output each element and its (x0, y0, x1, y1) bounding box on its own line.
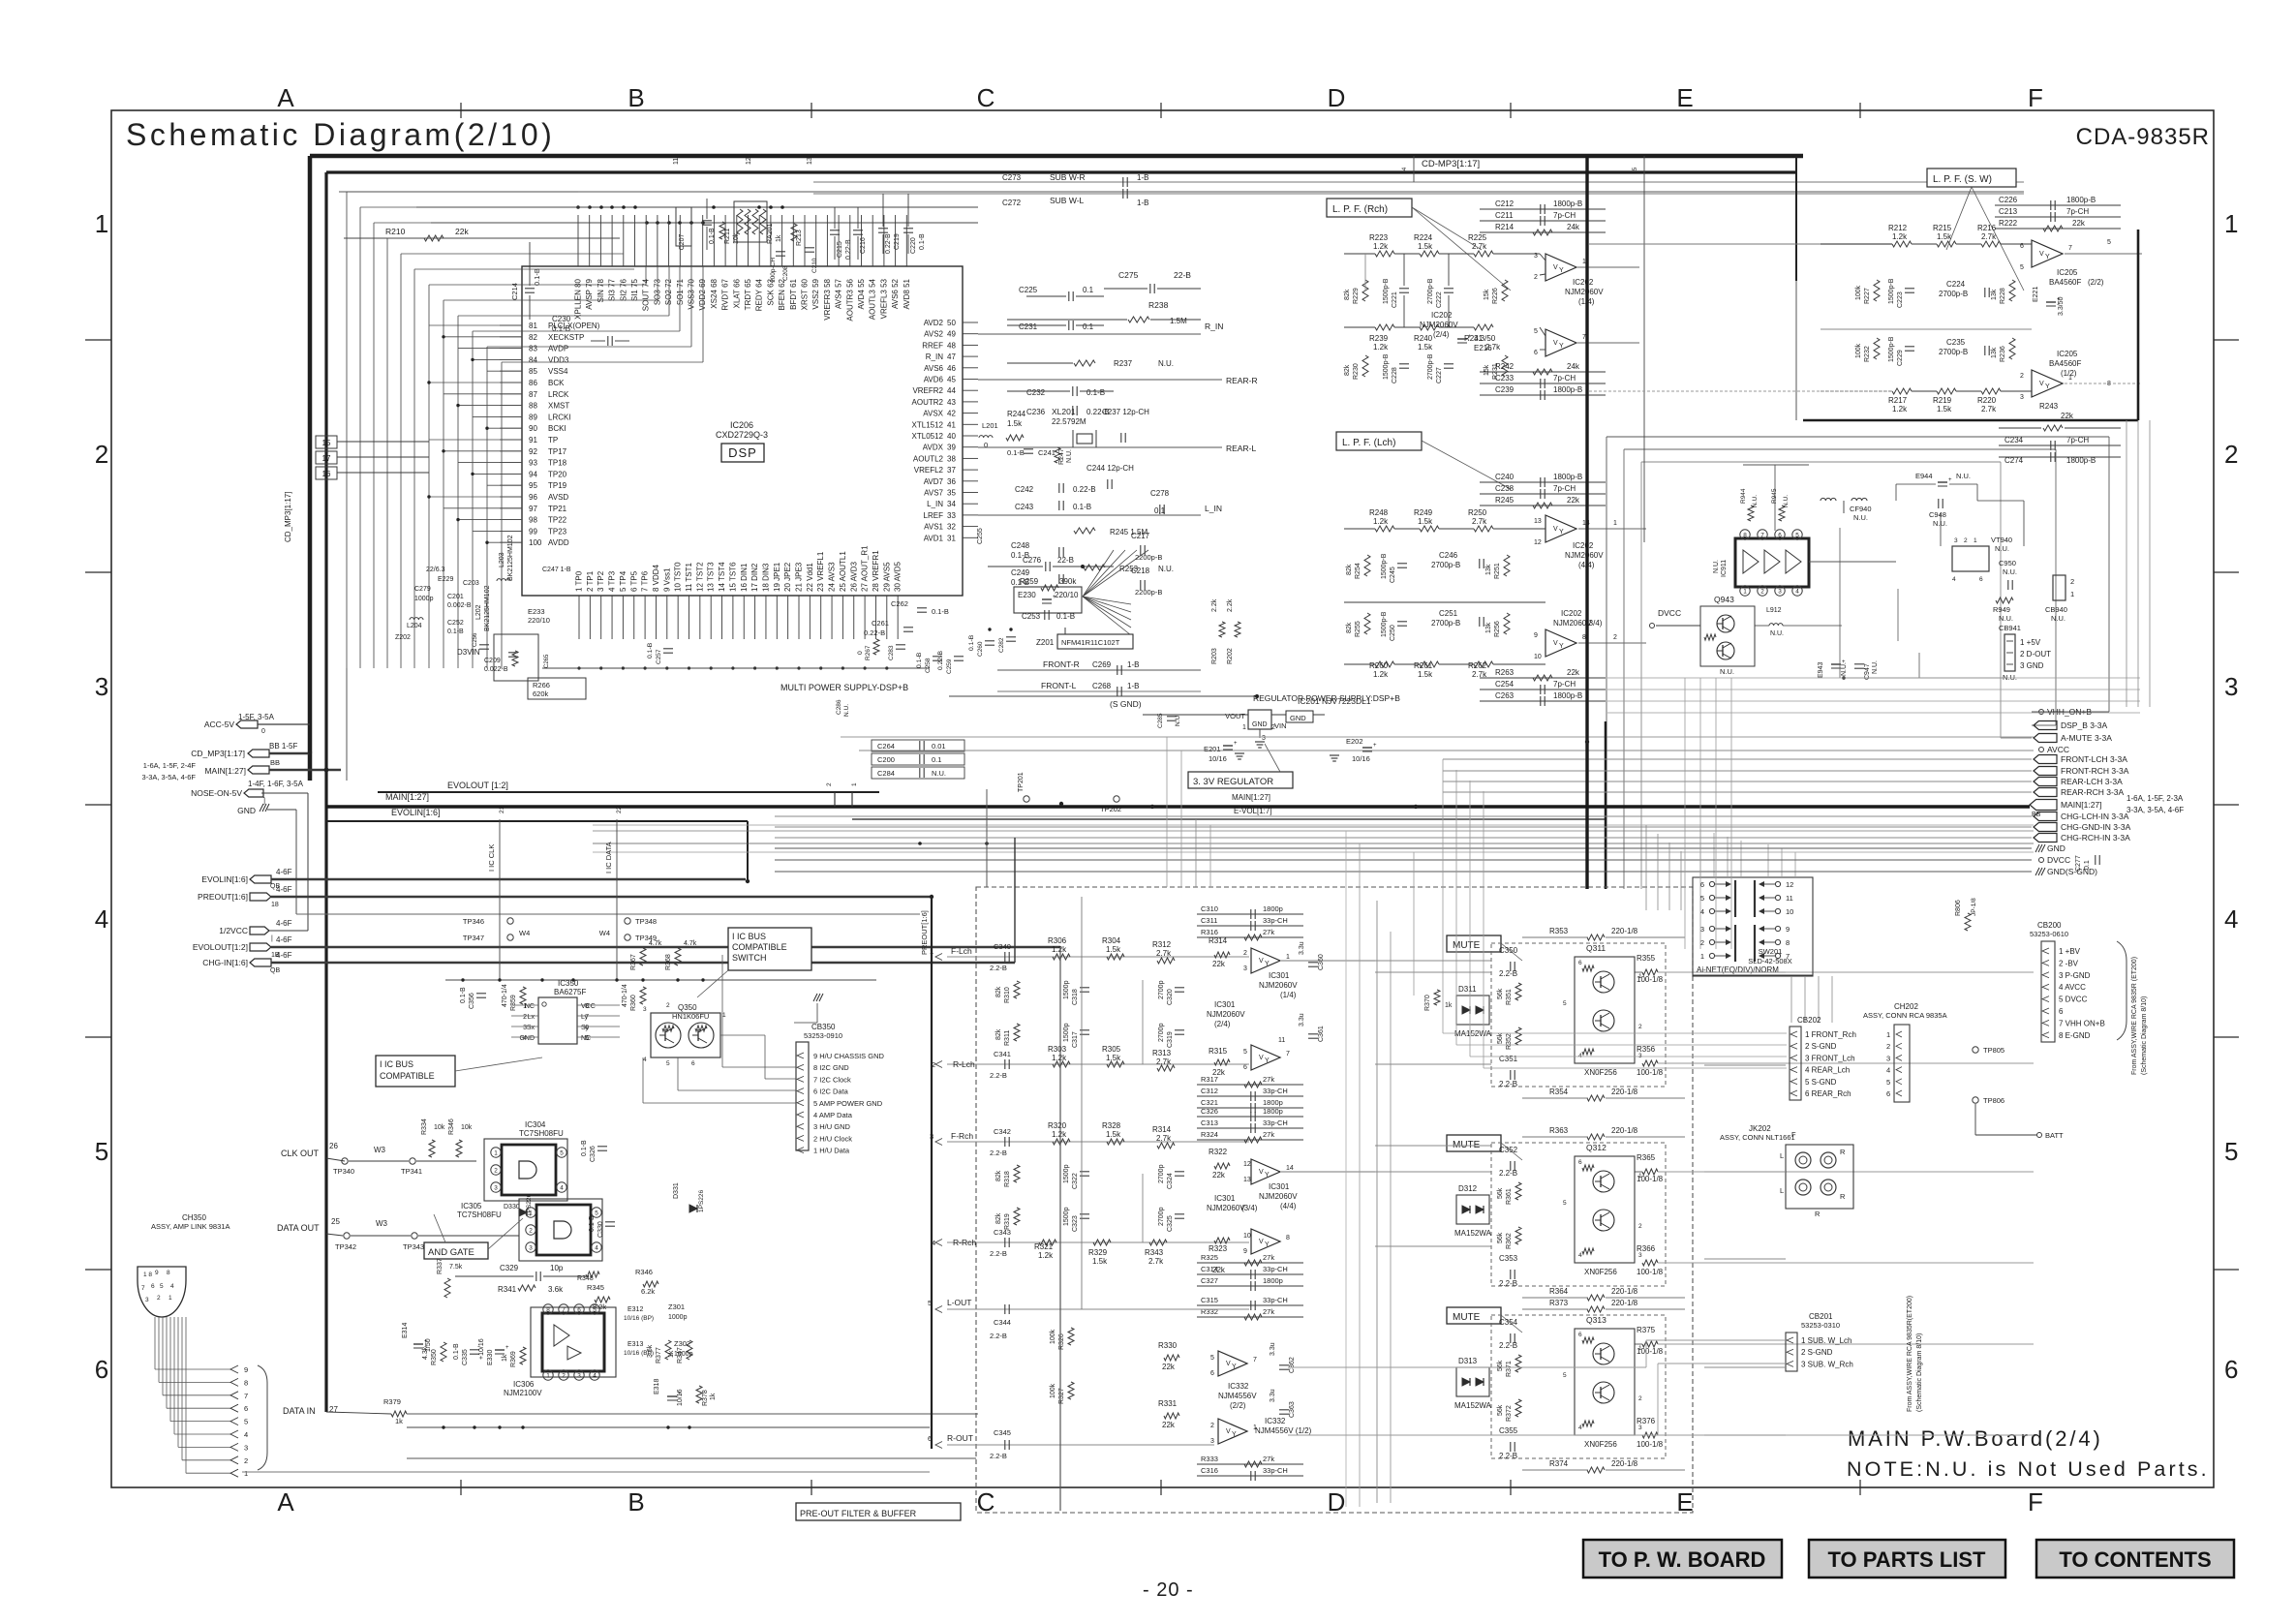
svg-text:22k: 22k (1162, 1421, 1176, 1429)
svg-text:0.022-B: 0.022-B (484, 666, 508, 673)
svg-text:V: V (1226, 1428, 1231, 1435)
wire right edge drops (2126, 420, 2127, 707)
svg-text:C217: C217 (1131, 532, 1150, 540)
svg-text:14 TST4: 14 TST4 (718, 562, 726, 592)
svg-text:C223: C223 (1897, 291, 1904, 308)
svg-text:C344: C344 (994, 1318, 1011, 1327)
junction dots bottom pins (577, 666, 580, 669)
capacitor 0.1-B above DSP (702, 220, 712, 222)
svg-text:17: 17 (322, 454, 331, 463)
svg-text:2700p-B: 2700p-B (1939, 348, 1968, 356)
svg-text:5: 5 (2107, 239, 2111, 246)
op-amp IC205 1/2 (2032, 370, 2063, 397)
svg-text:IC332: IC332 (1265, 1417, 1286, 1425)
svg-text:MAIN[1:27]: MAIN[1:27] (385, 792, 429, 802)
svg-text:XRST 60: XRST 60 (801, 278, 810, 310)
svg-text:0.22-B: 0.22-B (885, 233, 892, 254)
capacitor C948 N.U. (1938, 499, 1940, 508)
connector FRONT-LCH right (2034, 755, 2057, 764)
ic IC306 NJM2100V (531, 1307, 616, 1377)
label REAR-R wire (978, 379, 1222, 381)
svg-text:DATA IN: DATA IN (283, 1406, 316, 1416)
wire horizontal above DSP 2 (431, 222, 978, 224)
svg-text:26 AVD3: 26 AVD3 (849, 561, 858, 592)
capacitor C323 1500p (1080, 1213, 1089, 1215)
svg-text:13: 13 (807, 157, 813, 165)
svg-text:96: 96 (529, 493, 537, 502)
svg-text:1.5k: 1.5k (1106, 1054, 1121, 1062)
svg-text:+: + (1373, 743, 1377, 749)
svg-text:E944: E944 (1915, 472, 1933, 480)
svg-text:C245: C245 (1390, 567, 1396, 583)
svg-text:22k: 22k (455, 227, 469, 236)
svg-text:1800p-B: 1800p-B (1553, 199, 1582, 208)
svg-text:R266: R266 (533, 681, 550, 689)
svg-text:EVOLIN[1:6]: EVOLIN[1:6] (201, 874, 248, 884)
op-amp U IC206 DSP block outline (522, 266, 963, 596)
svg-text:10k: 10k (434, 1124, 445, 1131)
svg-text:C203: C203 (463, 580, 479, 587)
svg-text:4: 4 (170, 1283, 174, 1290)
svg-text:3: 3 (529, 1245, 533, 1252)
svg-text:45: 45 (947, 376, 956, 384)
svg-text:AVS4 57: AVS4 57 (835, 278, 843, 309)
svg-text:IC306: IC306 (513, 1380, 535, 1389)
svg-text:N.U.: N.U. (843, 704, 850, 717)
op-amp IC202 A (1545, 254, 1576, 281)
svg-text:E312: E312 (627, 1306, 643, 1313)
svg-text:Y: Y (1265, 1172, 1270, 1179)
resistor R232 100k (1874, 338, 1880, 359)
svg-text:99: 99 (529, 527, 537, 536)
svg-text:AVS7: AVS7 (924, 489, 943, 498)
resistor R377 3.6k (665, 1340, 671, 1360)
svg-text:3.3/50: 3.3/50 (1474, 334, 1496, 343)
svg-text:0.1-B: 0.1-B (647, 642, 654, 659)
svg-text:D330: D330 (504, 1204, 520, 1210)
svg-text:7 TP6: 7 TP6 (641, 570, 650, 592)
svg-text:VREFL2: VREFL2 (914, 466, 944, 475)
label S GND (949, 695, 1257, 697)
svg-text:|: | (271, 935, 273, 942)
svg-text:3.3/50: 3.3/50 (2058, 296, 2065, 316)
svg-text:9: 9 (1534, 632, 1538, 639)
svg-text:D313: D313 (1458, 1357, 1478, 1365)
svg-text:RREF: RREF (922, 341, 943, 350)
svg-text:C224: C224 (1946, 280, 1966, 289)
svg-text:VREFR3 58: VREFR3 58 (823, 278, 832, 320)
svg-text:25 AOUTL1: 25 AOUTL1 (839, 551, 847, 592)
output wires (1576, 266, 1639, 268)
svg-text:0.1-B: 0.1-B (581, 1140, 588, 1156)
svg-text:BFDT 61: BFDT 61 (789, 278, 798, 309)
svg-text:R372: R372 (1506, 1405, 1513, 1422)
svg-text:0.1-B: 0.1-B (447, 628, 464, 635)
svg-text:(3/4): (3/4) (1241, 1204, 1258, 1212)
label box MUTE 2 (1447, 1135, 1501, 1151)
svg-text:56k: 56k (1497, 1360, 1504, 1371)
svg-text:C319: C319 (1167, 1031, 1174, 1048)
svg-text:2.2-B: 2.2-B (1499, 1341, 1517, 1350)
svg-text:1.2k: 1.2k (1373, 517, 1389, 526)
svg-text:N.U.: N.U. (1158, 565, 1174, 573)
svg-text:97: 97 (529, 505, 537, 513)
svg-text:1.5M: 1.5M (1170, 317, 1187, 325)
transistor VT940 N.U. box (1952, 546, 1989, 571)
svg-text:R377: R377 (656, 1347, 662, 1364)
svg-text:XLAT 66: XLAT 66 (732, 278, 741, 308)
wire EVOLOUT risers (834, 792, 836, 807)
wire vertical to preout (986, 789, 988, 887)
svg-text:ASSY, AMP LINK 9831A: ASSY, AMP LINK 9831A (151, 1222, 229, 1231)
svg-text:8: 8 (1286, 1235, 1290, 1241)
svg-text:1.2k: 1.2k (1052, 1054, 1067, 1062)
svg-text:4: 4 (1578, 1252, 1582, 1259)
label R_IN wire (978, 333, 1201, 335)
svg-text:R346: R346 (635, 1268, 653, 1276)
svg-text:VIN: VIN (1274, 721, 1287, 730)
svg-text:7p-CH: 7p-CH (1553, 374, 1576, 383)
svg-text:C257: C257 (656, 649, 662, 664)
svg-text:N.U.: N.U. (1841, 662, 1848, 676)
switch SW201 pole circles left (1709, 881, 1714, 886)
svg-text:1800p: 1800p (1263, 1107, 1283, 1116)
svg-text:R363: R363 (1549, 1126, 1569, 1135)
svg-text:C238: C238 (1495, 484, 1515, 493)
svg-text:BK2125HM102: BK2125HM102 (507, 535, 514, 581)
wire evol riser (1059, 947, 1061, 1511)
svg-text:3: 3 (523, 1025, 527, 1031)
svg-text:1: 1 (523, 1003, 527, 1010)
vertical wire IIC CLK (499, 819, 501, 980)
svg-text:R315: R315 (1209, 1047, 1228, 1056)
wire preout row F-Rch (947, 1141, 1249, 1143)
svg-text:V: V (2039, 381, 2044, 387)
svg-text:2700p-B: 2700p-B (1427, 278, 1434, 304)
capacitor C250 1500p-B (1397, 621, 1407, 623)
svg-text:C248: C248 (1011, 541, 1030, 550)
svg-text:C340: C340 (994, 942, 1011, 951)
svg-text:3 H/U GND: 3 H/U GND (813, 1122, 851, 1131)
svg-text:AVS1: AVS1 (924, 523, 943, 532)
svg-text:R255: R255 (1355, 621, 1362, 637)
wire stubs from left pins (429, 324, 522, 326)
wire lpf sw feed top (1589, 243, 1892, 245)
svg-text:DVCC: DVCC (2047, 855, 2070, 865)
resistor R362 56k b (1515, 1227, 1521, 1244)
wires feedback (1480, 208, 1606, 210)
svg-text:SUB W-R: SUB W-R (1050, 172, 1086, 182)
svg-text:56k: 56k (1497, 1404, 1504, 1416)
svg-text:N.U.: N.U. (932, 769, 946, 778)
svg-text:24k: 24k (1567, 362, 1580, 371)
svg-text:R328: R328 (1102, 1121, 1121, 1130)
svg-text:E: E (1676, 83, 1693, 112)
wire mute outputs right (1704, 971, 1786, 973)
svg-text:C350: C350 (1499, 946, 1518, 955)
wires to right arrows (1443, 758, 2032, 760)
svg-text:R254: R254 (1355, 563, 1362, 579)
svg-text:R: R (1815, 1210, 1821, 1218)
svg-text:1: 1 (1613, 520, 1617, 527)
svg-text:5: 5 (160, 1283, 164, 1290)
grid row ticks left (85, 339, 111, 341)
svg-text:BATT: BATT (2045, 1131, 2064, 1140)
svg-text:V: V (1226, 1361, 1231, 1367)
svg-text:R256: R256 (1494, 621, 1501, 637)
svg-text:1k: 1k (502, 1354, 508, 1362)
svg-text:38: 38 (947, 454, 956, 463)
output wire F-Lch (1280, 960, 1375, 962)
svg-text:FRONT-RCH 3-3A: FRONT-RCH 3-3A (2061, 766, 2129, 776)
capacitor C257 0.1-B (663, 648, 673, 650)
wire preout to mute wires (1375, 960, 1491, 962)
svg-text:TRDT 65: TRDT 65 (744, 278, 752, 310)
capacitor C317 1500p (1080, 1029, 1089, 1031)
svg-text:C330: C330 (597, 1221, 604, 1238)
connector A-MUTE right (2034, 734, 2057, 743)
svg-text:C283: C283 (888, 645, 895, 660)
svg-text:5: 5 (928, 1299, 932, 1307)
svg-text:REAR-R: REAR-R (1226, 376, 1258, 385)
svg-text:87: 87 (529, 390, 537, 399)
svg-text:R220: R220 (1977, 396, 1997, 405)
svg-text:R224: R224 (1414, 233, 1433, 242)
svg-text:0.1-B: 0.1-B (453, 1343, 460, 1360)
svg-text:N.U.: N.U. (1175, 714, 1181, 726)
svg-text:CD-MP3[1:17]: CD-MP3[1:17] (1422, 159, 1480, 169)
svg-text:CD_MP3[1:17]: CD_MP3[1:17] (284, 492, 292, 542)
svg-text:A: A (277, 1487, 294, 1517)
svg-text:C353: C353 (1499, 1254, 1518, 1263)
svg-text:4: 4 (244, 1430, 248, 1439)
svg-text:10/16: 10/16 (677, 1389, 684, 1406)
svg-text:MA152WA: MA152WA (1454, 1029, 1492, 1038)
svg-text:PREOUT[1:6]: PREOUT[1:6] (920, 910, 929, 955)
svg-text:MAIN P.W.Board(2/4): MAIN P.W.Board(2/4) (1848, 1426, 2103, 1451)
svg-text:TP806: TP806 (1983, 1096, 2004, 1105)
svg-text:C218: C218 (1131, 567, 1150, 575)
wires feedback bottom (1480, 371, 1606, 373)
svg-text:R251: R251 (1494, 563, 1501, 579)
svg-text:IC301: IC301 (1269, 971, 1290, 980)
svg-text:C269: C269 (1092, 660, 1112, 669)
resistor R256 13k (1504, 613, 1510, 634)
svg-text:TP22: TP22 (548, 516, 567, 525)
wire sw right bus (2137, 230, 2140, 420)
svg-text:27k: 27k (1263, 1075, 1274, 1084)
svg-text:C947: C947 (1864, 663, 1871, 680)
wire IC911 top loop (1743, 464, 1809, 466)
svg-text:TO CONTENTS: TO CONTENTS (2059, 1547, 2211, 1572)
svg-text:IC202: IC202 (1561, 609, 1582, 618)
svg-text:1.5k: 1.5k (1937, 405, 1952, 414)
wire gray horizontals lower mid (1607, 677, 2140, 679)
svg-text:R231: R231 (1492, 363, 1499, 380)
svg-text:IC301: IC301 (1214, 1000, 1236, 1009)
svg-text:4: 4 (560, 1185, 564, 1192)
svg-text:85: 85 (529, 367, 537, 376)
junction dots misc (746, 879, 750, 883)
svg-text:7: 7 (141, 1285, 145, 1292)
svg-text:C: C (977, 83, 995, 112)
svg-text:6: 6 (1534, 350, 1538, 356)
svg-text:C275: C275 (1118, 270, 1139, 280)
testpoint TP349 (625, 935, 630, 940)
svg-text:C201: C201 (447, 594, 464, 600)
svg-text:C285: C285 (1157, 713, 1164, 728)
dashed box MUTE 3 (1491, 1315, 1666, 1458)
svg-text:6: 6 (1578, 1159, 1582, 1166)
svg-text:AVD8 51: AVD8 51 (903, 278, 911, 309)
svg-text:E202: E202 (1346, 737, 1363, 746)
svg-text:82k: 82k (1346, 622, 1353, 633)
svg-text:2.2-B: 2.2-B (1499, 1452, 1517, 1460)
wire bundle corners down to connectors (1442, 759, 1444, 1033)
svg-text:Z302: Z302 (674, 1339, 690, 1348)
wire thick CD-MP3 bus top (310, 154, 1803, 159)
svg-text:+: + (1234, 741, 1238, 747)
svg-text:- 20 -: - 20 - (1143, 1579, 1194, 1601)
svg-text:3.3u: 3.3u (1270, 1389, 1276, 1402)
svg-text:82k: 82k (1346, 564, 1353, 575)
svg-text:V: V (1259, 1169, 1264, 1176)
svg-text:TP340: TP340 (333, 1167, 354, 1176)
svg-text:SI1 75: SI1 75 (630, 278, 639, 301)
svg-text:3-3A, 3-5A, 4-6F: 3-3A, 3-5A, 4-6F (2127, 806, 2184, 814)
svg-text:C259: C259 (946, 659, 953, 674)
svg-text:C310: C310 (1201, 904, 1218, 913)
svg-text:3 SUB. W_Rch: 3 SUB. W_Rch (1801, 1360, 1853, 1368)
svg-text:1800p-B: 1800p-B (2066, 456, 2096, 465)
svg-text:1-6A, 1-5F, 2-3A: 1-6A, 1-5F, 2-3A (2127, 794, 2184, 803)
svg-text:16 DIN1: 16 DIN1 (740, 563, 749, 592)
svg-text:L. P. F. (Rch): L. P. F. (Rch) (1332, 204, 1388, 215)
junction dots above DSP (576, 205, 580, 209)
svg-text:1: 1 (722, 1012, 726, 1019)
svg-text:5: 5 (560, 1150, 564, 1157)
svg-text:AVSX: AVSX (923, 410, 943, 418)
svg-text:TC7SH08FU: TC7SH08FU (457, 1210, 502, 1219)
svg-text:C363: C363 (1289, 1401, 1296, 1418)
svg-text:1 8: 1 8 (143, 1272, 152, 1278)
svg-text:AVD6: AVD6 (924, 376, 944, 384)
wire fan from E230 up (1083, 550, 1114, 597)
testpoint TP806 (1973, 1097, 1978, 1103)
svg-text:R367: R367 (630, 954, 637, 970)
svg-text:1.2k: 1.2k (1892, 232, 1908, 241)
svg-text:C335: C335 (462, 1349, 469, 1365)
wires iic to CB350 (720, 1034, 765, 1036)
svg-text:VSS2 59: VSS2 59 (811, 278, 820, 309)
svg-text:C276: C276 (1023, 556, 1042, 565)
svg-text:10: 10 (1534, 654, 1542, 660)
resistor R369 1k (520, 1347, 526, 1364)
svg-text:3: 3 (494, 1185, 498, 1192)
svg-text:3.3u: 3.3u (1299, 1013, 1305, 1026)
connector REAR-RCH right (2034, 788, 2057, 797)
svg-text:470-1/4: 470-1/4 (502, 984, 508, 1007)
svg-text:1 +BV: 1 +BV (2059, 947, 2081, 956)
svg-text:2: 2 (1534, 274, 1538, 281)
svg-text:AVDP: AVDP (548, 345, 568, 353)
DSP label box (721, 444, 764, 462)
svg-text:4-6F: 4-6F (276, 935, 292, 944)
svg-text:V: V (1259, 1055, 1264, 1061)
svg-text:89: 89 (529, 413, 537, 421)
feedback rows SW top (1995, 204, 2121, 206)
resistor R251 13k (1504, 555, 1510, 576)
dashed box PRE-OUT FILTER (976, 887, 1693, 1513)
svg-text:R321: R321 (1034, 1242, 1054, 1251)
svg-text:91: 91 (529, 436, 537, 444)
svg-text:3: 3 (1886, 1054, 1890, 1062)
svg-text:V: V (1259, 958, 1264, 965)
svg-text:4: 4 (95, 904, 108, 934)
svg-text:AVS2: AVS2 (924, 330, 943, 339)
svg-text:R361: R361 (1506, 1188, 1513, 1205)
svg-text:2.2-B: 2.2-B (990, 1332, 1007, 1340)
svg-text:4.7k: 4.7k (684, 940, 697, 947)
svg-text:R371: R371 (1506, 1361, 1513, 1377)
wire nested loop 3 (1641, 461, 2001, 463)
svg-text:R236: R236 (2000, 346, 2006, 362)
svg-text:82k: 82k (995, 986, 1002, 997)
svg-text:R304: R304 (1102, 936, 1121, 945)
wires NU section h (1809, 561, 1896, 563)
op-amp IC301 (1251, 948, 1280, 973)
wire horizontal above DSP 3 (344, 237, 620, 239)
testpoint TP340 (342, 1158, 348, 1164)
svg-text:3: 3 (1534, 253, 1538, 260)
wire row2 Lch (1344, 601, 1545, 603)
svg-text:1-B: 1-B (1137, 173, 1148, 182)
svg-text:R368: R368 (665, 954, 672, 970)
svg-text:R214: R214 (1495, 223, 1515, 231)
svg-text:47: 47 (947, 352, 956, 361)
svg-text:1800p: 1800p (1263, 1276, 1283, 1285)
svg-text:R212: R212 (1888, 224, 1908, 232)
svg-text:5: 5 (244, 1418, 248, 1426)
svg-text:Y: Y (1232, 1364, 1237, 1370)
wire gray net 1 (1364, 254, 1366, 291)
svg-text:R375: R375 (1637, 1326, 1656, 1334)
svg-text:ASSY, CONN RCA 9835A: ASSY, CONN RCA 9835A (1863, 1011, 1947, 1020)
svg-text:9: 9 (1243, 1248, 1247, 1255)
svg-text:C255: C255 (977, 528, 984, 544)
svg-text:CB350: CB350 (811, 1023, 836, 1031)
svg-text:D311: D311 (1458, 985, 1477, 994)
svg-text:1: 1 (851, 782, 858, 786)
svg-text:R365: R365 (1637, 1153, 1656, 1162)
svg-text:TP19: TP19 (548, 481, 567, 490)
svg-text:1.5k: 1.5k (1092, 1257, 1108, 1266)
svg-text:R944: R944 (1740, 488, 1747, 504)
resistor R327 100k (1068, 1382, 1074, 1399)
svg-text:IC304: IC304 (525, 1120, 546, 1129)
svg-text:C318: C318 (1072, 989, 1079, 1005)
svg-text:22k: 22k (1567, 496, 1580, 505)
svg-text:PRE-OUT FILTER & BUFFER: PRE-OUT FILTER & BUFFER (800, 1509, 917, 1518)
svg-text:3 FRONT_Lch: 3 FRONT_Lch (1805, 1054, 1855, 1062)
wire vout left (1143, 714, 1201, 716)
op-amp IC332 2/2 (1218, 1351, 1247, 1376)
wire gray lines under buses (593, 824, 2034, 826)
svg-text:25: 25 (331, 1217, 340, 1226)
svg-text:D331: D331 (673, 1182, 680, 1199)
svg-text:R245: R245 (1495, 496, 1515, 505)
wire horizontal above DSP 1 (416, 206, 978, 208)
